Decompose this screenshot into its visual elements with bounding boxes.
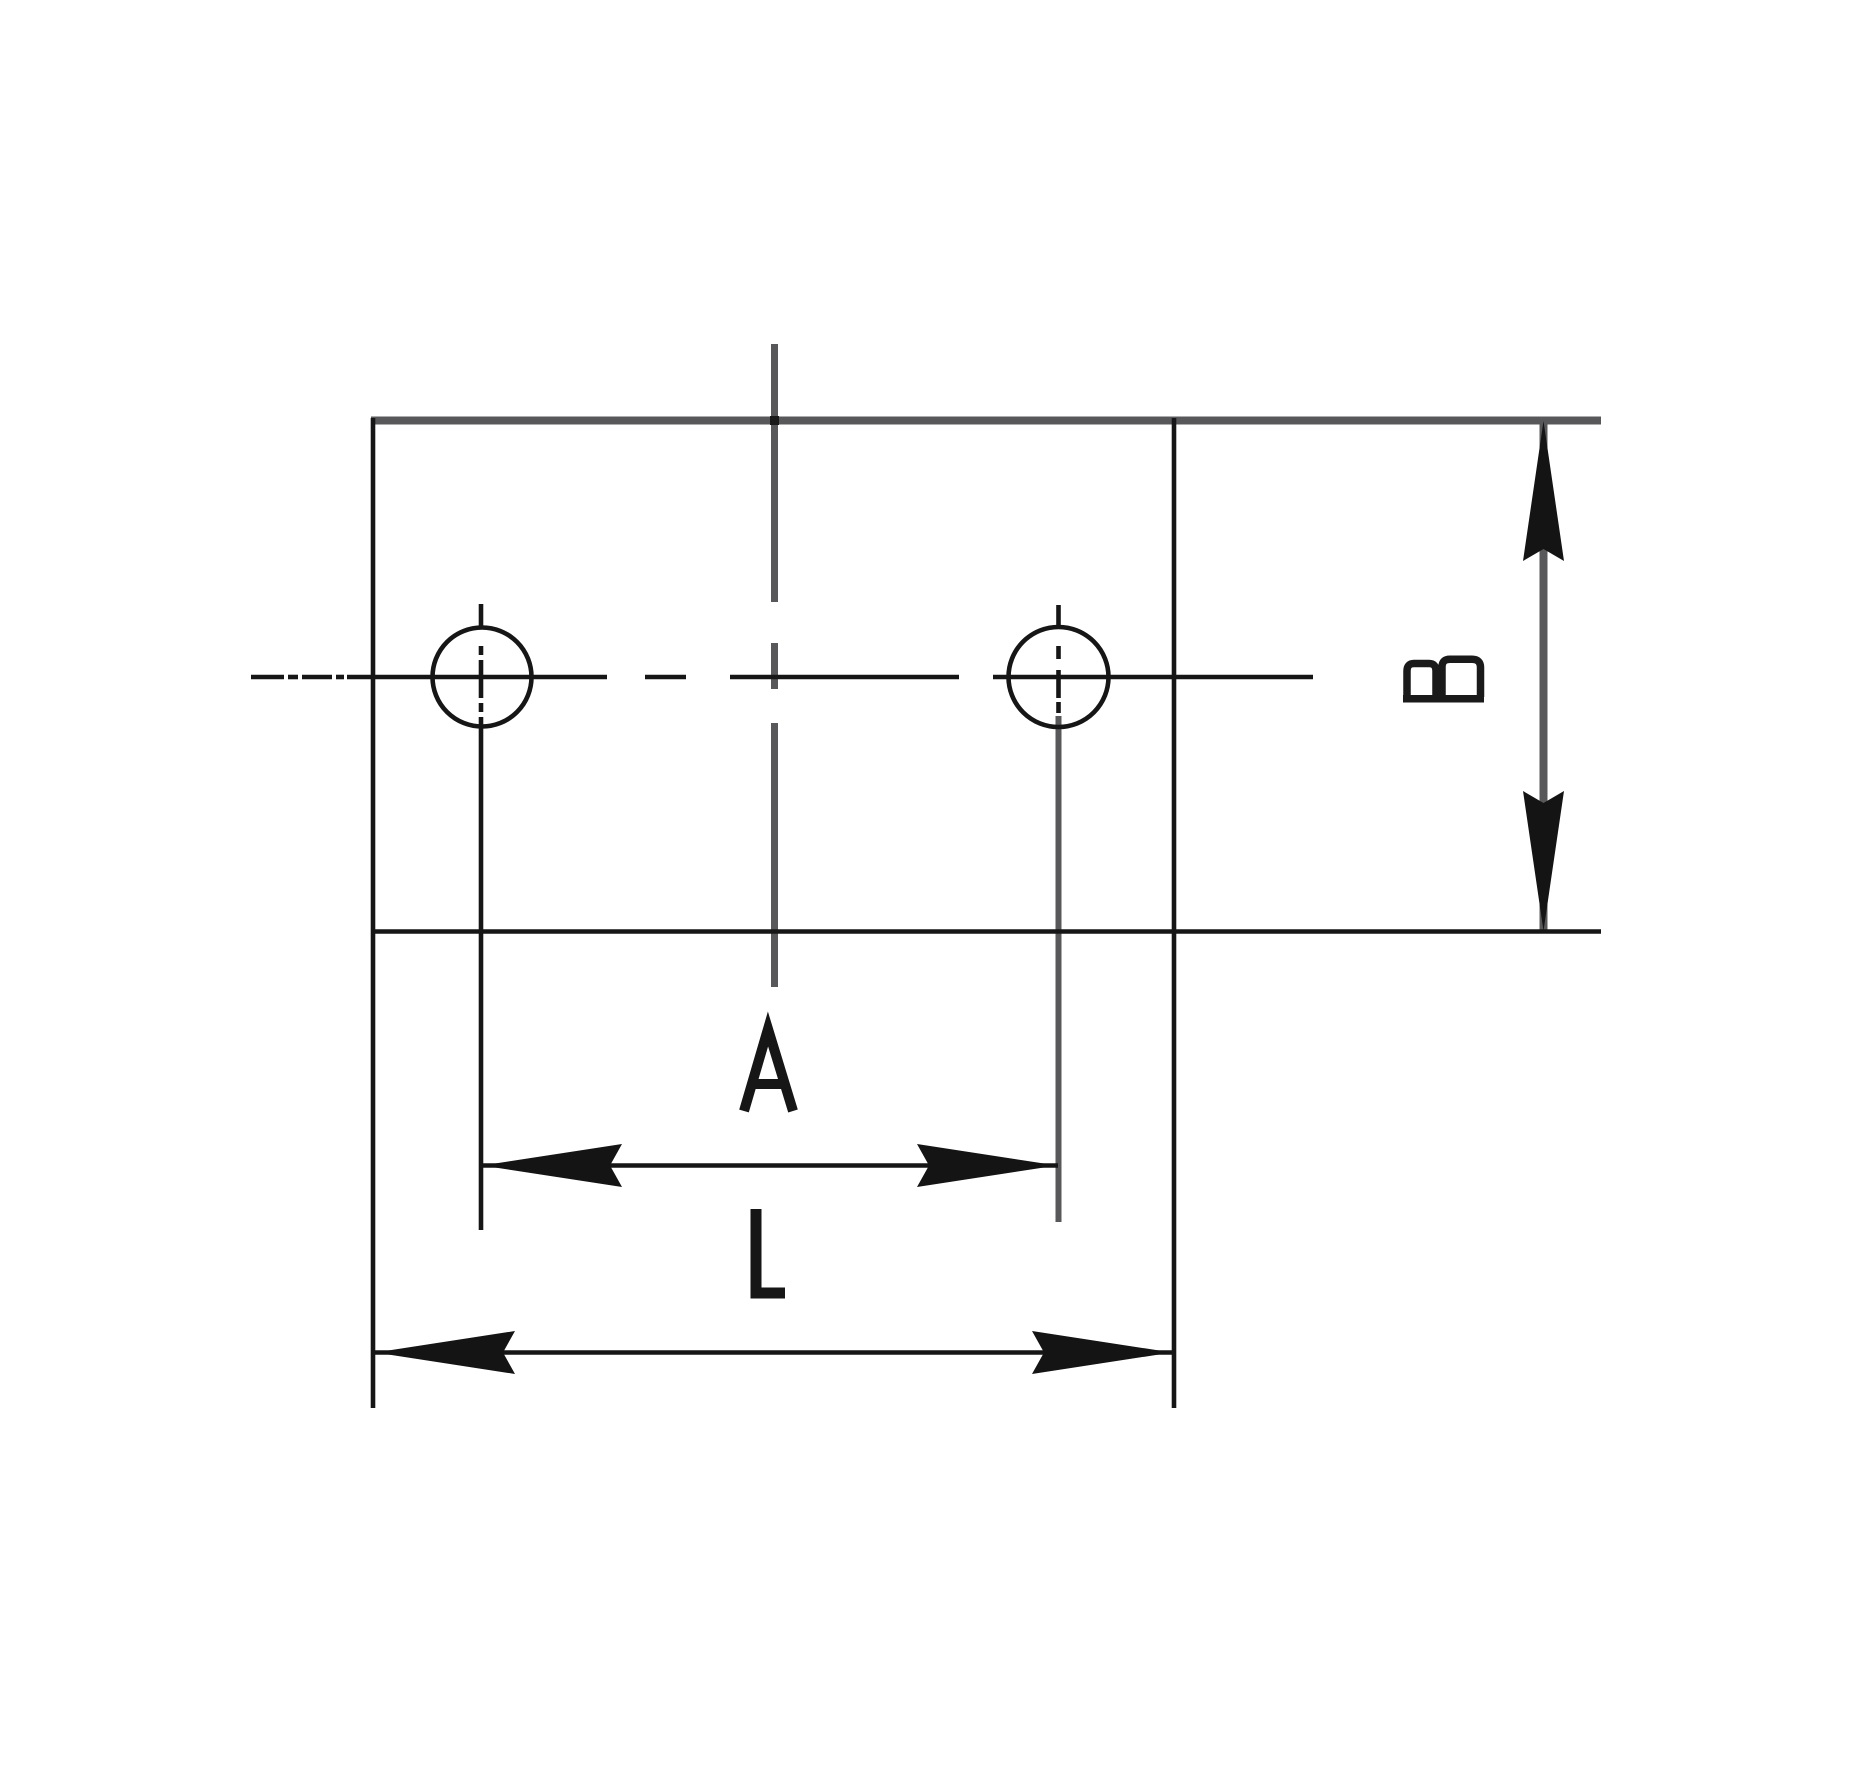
plate left edge xyxy=(371,418,376,1408)
hole H1 xyxy=(433,628,532,727)
dimension line A xyxy=(481,1163,1058,1168)
arrowhead L left xyxy=(375,1331,515,1374)
plate right edge xyxy=(1172,418,1177,1408)
vertical centerline (dash-dot) xyxy=(771,344,778,987)
plate bottom edge xyxy=(371,929,1601,934)
arrowhead L right xyxy=(1032,1331,1172,1374)
junction of centerline and top edge xyxy=(770,416,779,425)
hole H1 centerline / extension line xyxy=(479,604,484,1230)
arrowhead A left xyxy=(482,1144,622,1187)
hole H2 xyxy=(1009,627,1109,727)
arrowhead B top xyxy=(1523,421,1564,561)
label B (rotated 90 deg CCW) xyxy=(1403,659,1484,699)
label A xyxy=(744,1029,793,1111)
hole H2 centerline (upper dash-dot) xyxy=(1056,605,1061,713)
label L xyxy=(756,1209,785,1293)
dimension line B xyxy=(1540,421,1548,931)
horizontal centerline through holes (dash-dot) xyxy=(251,675,1313,680)
arrowhead B bottom xyxy=(1523,791,1564,931)
dimension line L xyxy=(373,1350,1174,1355)
arrowhead A right xyxy=(917,1144,1057,1187)
plate top edge xyxy=(371,417,1601,425)
extension line of hole H2 (lower gray part) xyxy=(1056,716,1062,1222)
